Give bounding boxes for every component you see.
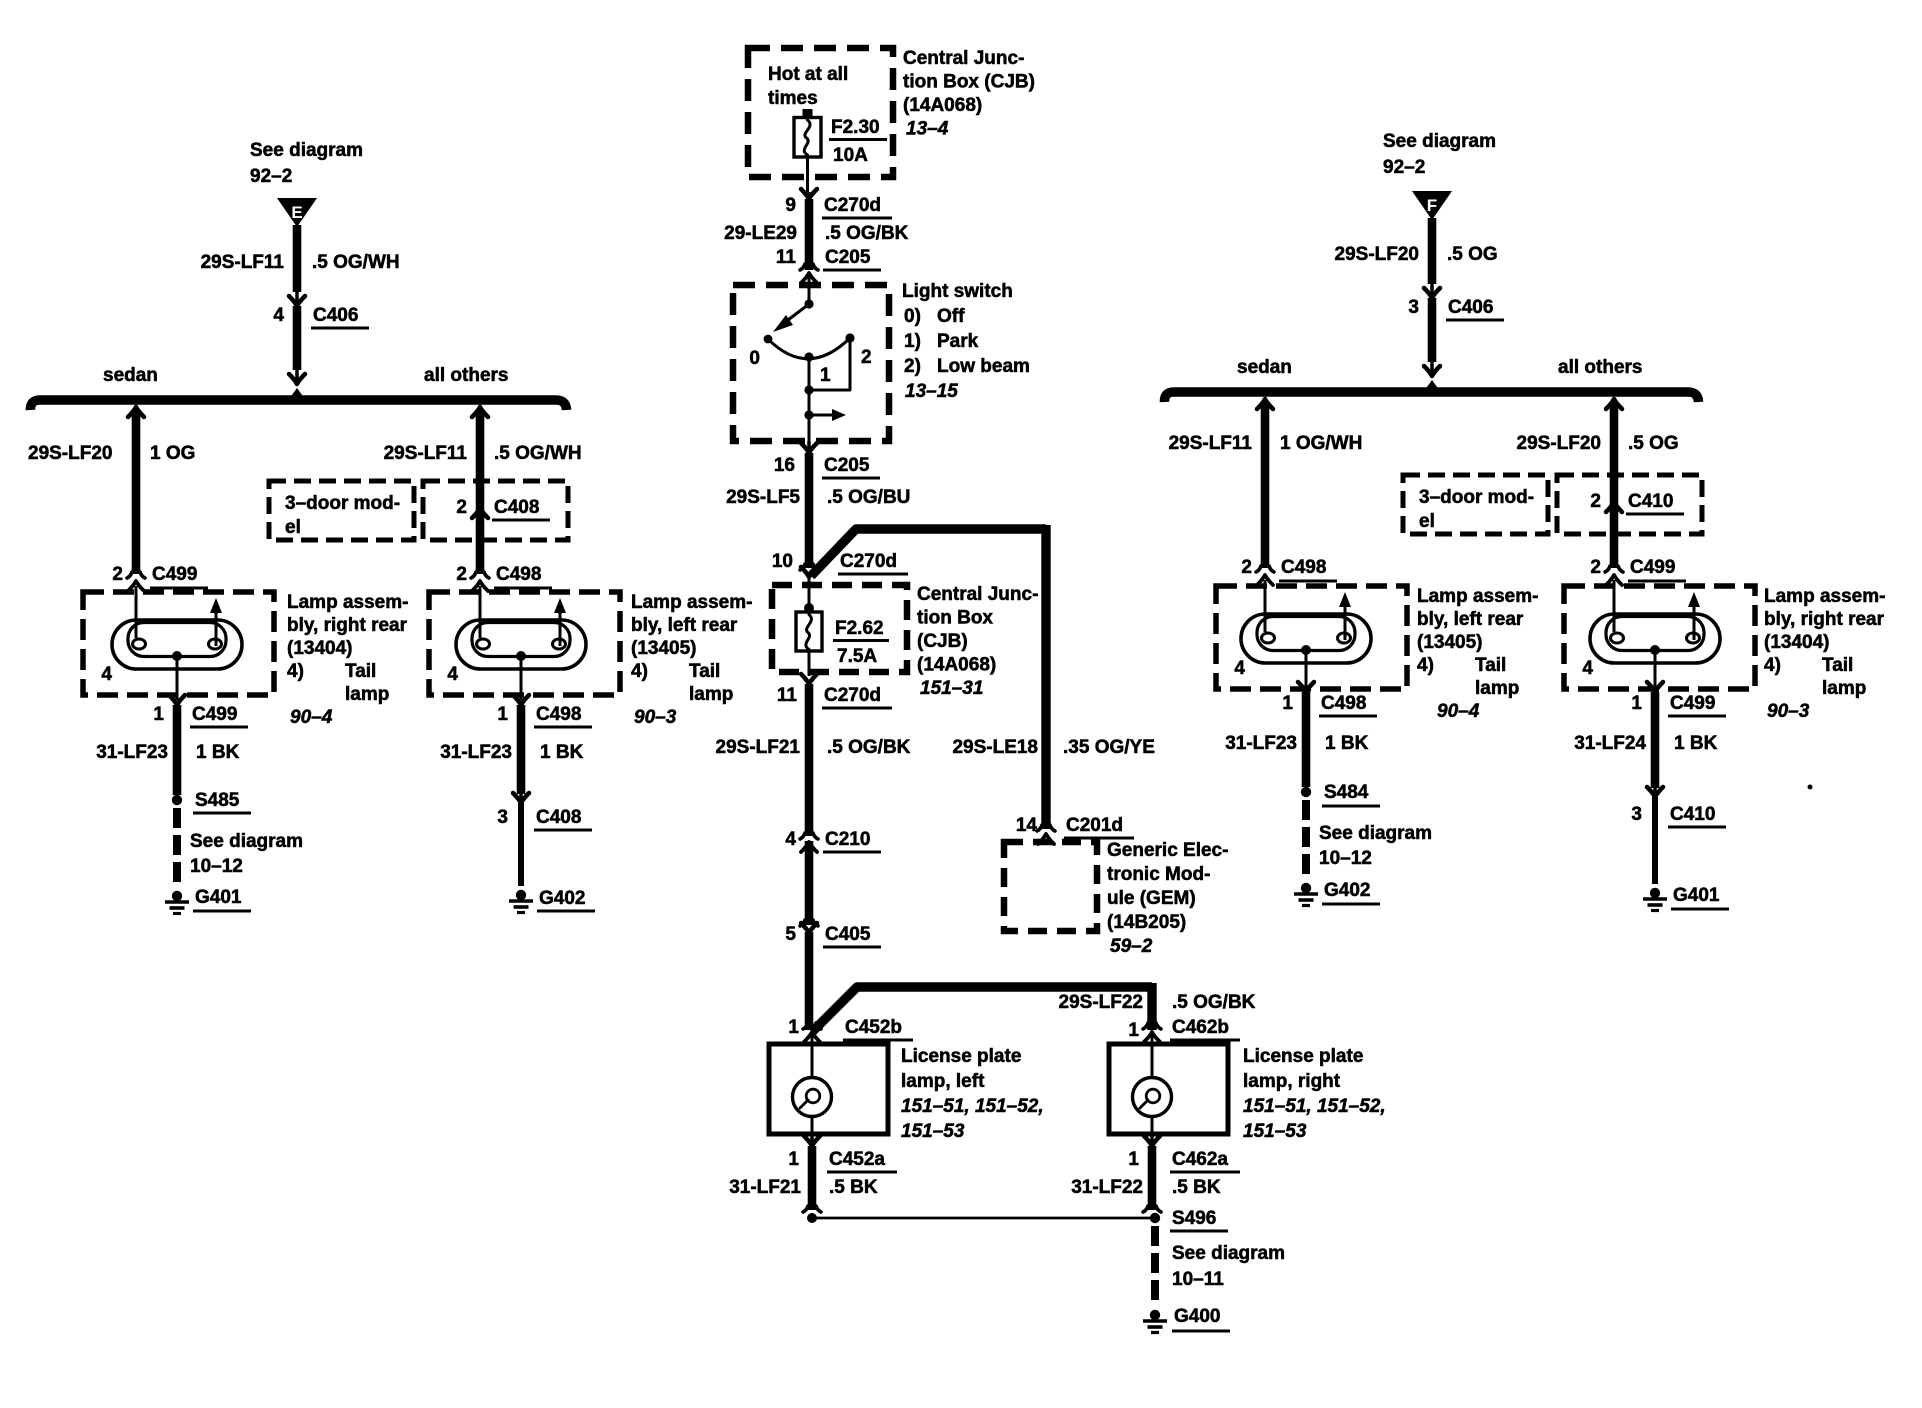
ground G401 (left) bbox=[172, 891, 182, 901]
svg-text:31-LF21: 31-LF21 bbox=[729, 1177, 801, 1198]
svg-text:F2.30: F2.30 bbox=[831, 117, 880, 138]
svg-text:1: 1 bbox=[1128, 1149, 1139, 1170]
triangle connector E from diagram 92-2 bbox=[277, 198, 317, 227]
svg-text:G402: G402 bbox=[539, 888, 585, 909]
svg-text:Off: Off bbox=[937, 306, 965, 327]
svg-text:1: 1 bbox=[788, 1017, 799, 1038]
svg-text:lamp: lamp bbox=[345, 684, 389, 705]
svg-text:all others: all others bbox=[1558, 357, 1642, 378]
connector C499 pin 2 into right-rear lamp (right) bbox=[1605, 566, 1623, 572]
svg-text:License plate: License plate bbox=[901, 1046, 1021, 1067]
svg-text:Lamp assem-: Lamp assem- bbox=[631, 592, 752, 613]
svg-text:31-LF23: 31-LF23 bbox=[440, 742, 512, 763]
svg-text:92–2: 92–2 bbox=[1383, 157, 1425, 178]
svg-text:Light switch: Light switch bbox=[902, 281, 1013, 302]
svg-text:4: 4 bbox=[1582, 658, 1593, 679]
all-others drop wire 29S-LF11 .5 OG/WH (left) bbox=[472, 407, 488, 417]
connector C205 pin 16 below switch bbox=[807, 441, 811, 451]
right bus wire sedan / all others bbox=[1164, 392, 1698, 402]
connector C406 pin 3 (right) bbox=[1430, 284, 1434, 296]
svg-text:2: 2 bbox=[112, 564, 123, 585]
svg-text:(13404): (13404) bbox=[1764, 632, 1830, 653]
svg-text:90–3: 90–3 bbox=[1767, 701, 1810, 722]
feed tap with right arrow bbox=[804, 410, 813, 419]
svg-text:4: 4 bbox=[447, 664, 458, 685]
wire 31-LF22 .5 BK bbox=[1148, 1146, 1157, 1210]
switch position terminal 1 bbox=[804, 352, 813, 361]
svg-text:31-LF23: 31-LF23 bbox=[96, 742, 168, 763]
connector C210 pin 4 (mated pair) bbox=[800, 833, 818, 839]
svg-text:1 BK: 1 BK bbox=[1325, 733, 1369, 754]
wire C406 to sedan/all-others bus (left) bbox=[293, 306, 302, 370]
svg-text:31-LF23: 31-LF23 bbox=[1225, 733, 1297, 754]
svg-text:29S-LF11: 29S-LF11 bbox=[201, 252, 285, 273]
svg-text:C499: C499 bbox=[1670, 693, 1715, 714]
svg-text:.5 OG/WH: .5 OG/WH bbox=[312, 252, 400, 273]
svg-text:Tail: Tail bbox=[1822, 655, 1853, 676]
svg-text:S496: S496 bbox=[1172, 1208, 1216, 1229]
svg-text:tion Box (CJB): tion Box (CJB) bbox=[903, 72, 1035, 93]
svg-text:C452b: C452b bbox=[845, 1017, 902, 1038]
svg-text:G401: G401 bbox=[195, 887, 242, 908]
svg-text:C270d: C270d bbox=[840, 551, 897, 572]
svg-text:sedan: sedan bbox=[1237, 357, 1292, 378]
svg-text:1 BK: 1 BK bbox=[1674, 733, 1718, 754]
svg-text:C201d: C201d bbox=[1066, 815, 1123, 836]
svg-text:14: 14 bbox=[1016, 815, 1038, 836]
splice node left license lamp ground bbox=[807, 1213, 817, 1223]
svg-text:90–3: 90–3 bbox=[634, 707, 677, 728]
dashed wire to ground G400, see diagram 10-11 bbox=[1151, 1226, 1159, 1302]
svg-text:S485: S485 bbox=[195, 790, 240, 811]
wire 31-LF21 .5 BK bbox=[808, 1146, 817, 1210]
svg-text:4: 4 bbox=[101, 664, 112, 685]
wire C405 down to license lamp branch bbox=[805, 932, 814, 1030]
svg-text:Central Junc-: Central Junc- bbox=[903, 48, 1024, 69]
svg-text:C410: C410 bbox=[1628, 491, 1673, 512]
svg-text:.5 OG: .5 OG bbox=[1447, 244, 1498, 265]
svg-text:1 BK: 1 BK bbox=[196, 742, 240, 763]
svg-text:29S-LF20: 29S-LF20 bbox=[28, 443, 112, 464]
svg-text:Hot at all: Hot at all bbox=[768, 64, 848, 85]
central junction box CJB (fuse F2.30) dashed enclosure bbox=[748, 48, 893, 177]
svg-text:C405: C405 bbox=[825, 924, 871, 945]
svg-text:7.5A: 7.5A bbox=[837, 646, 877, 667]
svg-text:tronic Mod-: tronic Mod- bbox=[1107, 864, 1210, 885]
svg-text:See diagram: See diagram bbox=[1172, 1243, 1285, 1264]
svg-text:Tail: Tail bbox=[1475, 655, 1506, 676]
generic electronic module GEM dashed enclosure bbox=[1004, 842, 1097, 931]
svg-text:.35 OG/YE: .35 OG/YE bbox=[1063, 737, 1155, 758]
svg-text:lamp, left: lamp, left bbox=[901, 1071, 985, 1092]
svg-text:(14A068): (14A068) bbox=[903, 95, 982, 116]
svg-text:1: 1 bbox=[1282, 693, 1293, 714]
connector C201d pin 14 into GEM bbox=[1037, 825, 1055, 831]
switch pivot node bbox=[804, 299, 813, 308]
svg-text:.5 OG: .5 OG bbox=[1628, 433, 1679, 454]
connector C452b pin 1 into left license lamp bbox=[803, 1023, 821, 1029]
svg-text:1: 1 bbox=[153, 704, 164, 725]
ground equalizer wire to S496 bbox=[812, 1217, 1155, 1220]
svg-text:Lamp assem-: Lamp assem- bbox=[1764, 586, 1885, 607]
svg-text:(13405): (13405) bbox=[1417, 632, 1483, 653]
svg-text:59–2: 59–2 bbox=[1110, 936, 1153, 957]
svg-text:31-LF24: 31-LF24 bbox=[1574, 733, 1646, 754]
svg-text:(14A068): (14A068) bbox=[917, 655, 996, 676]
svg-text:1: 1 bbox=[1128, 1020, 1139, 1041]
license plate lamp right (bulb in solid box) bbox=[1109, 1044, 1228, 1134]
svg-text:el: el bbox=[1419, 511, 1435, 532]
svg-text:3: 3 bbox=[1408, 297, 1419, 318]
svg-text:90–4: 90–4 bbox=[1437, 701, 1480, 722]
wire 31-LF23 1 BK (left lamp) bbox=[173, 705, 182, 795]
svg-text:ule (GEM): ule (GEM) bbox=[1107, 888, 1196, 909]
wire 29S-LF11 .5 OG/WH from E bbox=[293, 225, 302, 292]
lamp assembly right rear 13404 (tail lamp, left diagram) bbox=[83, 592, 274, 695]
connector C408 pin 2 chevron and labels bbox=[472, 508, 488, 518]
svg-text:C270d: C270d bbox=[824, 195, 881, 216]
svg-text:License plate: License plate bbox=[1243, 1046, 1363, 1067]
connector C499 pin 2 into right-rear lamp bbox=[127, 572, 145, 578]
svg-text:C499: C499 bbox=[1630, 557, 1675, 578]
svg-text:.5 OG/BU: .5 OG/BU bbox=[827, 487, 910, 508]
splice S484 bbox=[1301, 787, 1311, 797]
connector C408 pin 3 bbox=[519, 794, 523, 801]
svg-text:(CJB): (CJB) bbox=[917, 631, 968, 652]
connector C410 pin 2 chevron and labels bbox=[1606, 502, 1622, 512]
svg-text:Low beam: Low beam bbox=[937, 356, 1030, 377]
wire to ground G402 bbox=[518, 803, 524, 886]
svg-text:bly, left rear: bly, left rear bbox=[631, 615, 738, 636]
wire C406 to bus (right) bbox=[1428, 298, 1437, 362]
svg-text:4): 4) bbox=[1764, 655, 1781, 676]
splice S485 bbox=[172, 795, 182, 805]
connector C410 pin 2 dashed box on all-others drop (right) bbox=[1557, 475, 1702, 534]
svg-text:(13404): (13404) bbox=[287, 638, 353, 659]
svg-text:C410: C410 bbox=[1670, 804, 1715, 825]
connector C498 pin 1 below lamp (right) bbox=[1298, 682, 1314, 692]
svg-text:92–2: 92–2 bbox=[250, 166, 292, 187]
dashed wire to ground, see diagram 10-12 (left) bbox=[173, 808, 181, 886]
switch arc 0-1-2 bbox=[768, 338, 850, 359]
svg-text:C499: C499 bbox=[152, 564, 197, 585]
connector C408 pin 2 dashed box on all-others drop (left) bbox=[423, 481, 568, 540]
connector C405 pin 5 bbox=[800, 920, 818, 926]
svg-text:4: 4 bbox=[785, 829, 796, 850]
svg-text:1: 1 bbox=[788, 1149, 799, 1170]
splice S496 bbox=[1150, 1213, 1160, 1223]
svg-text:29S-LF5: 29S-LF5 bbox=[726, 487, 800, 508]
svg-text:4): 4) bbox=[287, 661, 304, 682]
svg-text:F2.62: F2.62 bbox=[835, 618, 884, 639]
wire 29S-LF21 .5 OG/BK bbox=[805, 684, 814, 836]
wire: fuse to connector C270d bbox=[806, 157, 809, 192]
svg-text:1 OG/WH: 1 OG/WH bbox=[1280, 433, 1362, 454]
wire 31-LF23 1 BK (right sedan lamp) bbox=[1302, 692, 1311, 787]
junction notch on left bus bbox=[289, 388, 305, 399]
left bus wire sedan / all others bbox=[30, 400, 566, 410]
svg-text:times: times bbox=[768, 88, 818, 109]
fuse F2.30 10A bbox=[803, 109, 813, 118]
svg-text:29S-LF11: 29S-LF11 bbox=[1169, 433, 1253, 454]
svg-text:2: 2 bbox=[1590, 491, 1601, 512]
svg-text:lamp: lamp bbox=[689, 684, 733, 705]
svg-text:1 BK: 1 BK bbox=[540, 742, 584, 763]
wire 29-LE29 .5 OG/BK bbox=[805, 199, 814, 270]
wire into CJB fuse F2.62 bbox=[808, 577, 811, 608]
connector C270d pin 9 bbox=[807, 192, 811, 197]
svg-text:1): 1) bbox=[904, 331, 921, 352]
svg-text:4): 4) bbox=[631, 661, 648, 682]
svg-text:151–53: 151–53 bbox=[1243, 1121, 1307, 1142]
stray print dot bbox=[1808, 785, 1813, 790]
svg-text:C408: C408 bbox=[536, 807, 581, 828]
svg-text:S484: S484 bbox=[1324, 782, 1369, 803]
svg-text:1 OG: 1 OG bbox=[150, 443, 195, 464]
svg-text:29S-LF22: 29S-LF22 bbox=[1059, 992, 1143, 1013]
svg-text:C498: C498 bbox=[1281, 557, 1326, 578]
ground G402 (left) bbox=[516, 890, 526, 900]
svg-text:C498: C498 bbox=[496, 564, 541, 585]
svg-text:16: 16 bbox=[774, 455, 795, 476]
svg-text:C452a: C452a bbox=[829, 1149, 885, 1170]
wire branch to GEM: diagonal + horizontal + vertical bbox=[811, 529, 1046, 576]
svg-text:See diagram: See diagram bbox=[1383, 131, 1496, 152]
svg-text:151–53: 151–53 bbox=[901, 1121, 965, 1142]
svg-text:C205: C205 bbox=[825, 247, 871, 268]
svg-text:.5 OG/WH: .5 OG/WH bbox=[494, 443, 582, 464]
svg-text:29S-LF20: 29S-LF20 bbox=[1335, 244, 1419, 265]
svg-text:5: 5 bbox=[785, 924, 796, 945]
wire 29S-LF20 .5 OG from F bbox=[1428, 218, 1437, 284]
svg-text:.5 BK: .5 BK bbox=[1172, 1177, 1221, 1198]
svg-text:C210: C210 bbox=[825, 829, 870, 850]
svg-text:C408: C408 bbox=[494, 497, 539, 518]
svg-text:31-LF22: 31-LF22 bbox=[1071, 1177, 1143, 1198]
svg-text:C498: C498 bbox=[1321, 693, 1366, 714]
svg-text:151–31: 151–31 bbox=[920, 678, 983, 699]
switch pole wire bbox=[808, 357, 811, 441]
svg-text:lamp: lamp bbox=[1475, 678, 1519, 699]
svg-text:29S-LF20: 29S-LF20 bbox=[1517, 433, 1601, 454]
svg-text:2: 2 bbox=[861, 347, 872, 368]
connector C462b pin 1 into right license lamp bbox=[1143, 1023, 1161, 1029]
connector C462a pin 1 below right license lamp bbox=[1150, 1134, 1154, 1144]
svg-text:C406: C406 bbox=[313, 305, 358, 326]
connector C270d pin 11 below CJB bbox=[801, 674, 817, 684]
svg-text:151–51, 151–52,: 151–51, 151–52, bbox=[901, 1096, 1044, 1117]
svg-text:1: 1 bbox=[820, 365, 831, 386]
junction node on pole bbox=[804, 385, 813, 394]
svg-text:G401: G401 bbox=[1673, 885, 1720, 906]
svg-text:(14B205): (14B205) bbox=[1107, 912, 1186, 933]
svg-text:el: el bbox=[285, 517, 301, 538]
svg-text:13–15: 13–15 bbox=[905, 381, 958, 402]
svg-text:lamp, right: lamp, right bbox=[1243, 1071, 1341, 1092]
3-door model dashed note box (right) bbox=[1403, 475, 1548, 534]
connector C452a pin 1 below left license lamp bbox=[810, 1134, 814, 1144]
svg-text:10: 10 bbox=[772, 551, 793, 572]
lamp assembly left rear 13405 (tail lamp, left diagram) bbox=[429, 592, 620, 695]
svg-text:9: 9 bbox=[785, 195, 796, 216]
switch wiper arm with arrowhead toward position 0 bbox=[788, 304, 809, 320]
wire branch to right license lamp: diagonal + horizontal + vertical bbox=[812, 987, 1152, 1032]
3-door model dashed note box (left) bbox=[269, 481, 414, 540]
svg-text:1: 1 bbox=[1631, 693, 1642, 714]
svg-text:2: 2 bbox=[1590, 557, 1601, 578]
svg-text:2: 2 bbox=[456, 497, 467, 518]
fuse F2.62 7.5A bbox=[804, 603, 814, 613]
svg-text:2: 2 bbox=[1241, 557, 1252, 578]
svg-text:bly, left rear: bly, left rear bbox=[1417, 609, 1524, 630]
svg-text:See diagram: See diagram bbox=[190, 831, 303, 852]
svg-text:Lamp assem-: Lamp assem- bbox=[287, 592, 408, 613]
svg-text:0): 0) bbox=[904, 306, 921, 327]
svg-text:(13405): (13405) bbox=[631, 638, 697, 659]
svg-text:3–door mod-: 3–door mod- bbox=[1419, 487, 1534, 508]
wire into light switch bbox=[808, 273, 811, 304]
sedan drop wire 29S-LF11 1 OG/WH (right) bbox=[1257, 399, 1273, 409]
svg-text:29-LE29: 29-LE29 bbox=[724, 223, 797, 244]
wire 31-LF23 1 BK (second lamp) bbox=[517, 705, 526, 794]
all-others drop wire 29S-LF20 .5 OG (right) bbox=[1606, 399, 1622, 409]
svg-text:10A: 10A bbox=[833, 145, 868, 166]
svg-text:C406: C406 bbox=[1448, 297, 1493, 318]
lamp assembly left rear 13405 (tail lamp, right diagram) bbox=[1216, 586, 1407, 689]
svg-text:4: 4 bbox=[1234, 658, 1245, 679]
junction notch on right bus bbox=[1424, 380, 1440, 391]
svg-text:3–door mod-: 3–door mod- bbox=[285, 493, 400, 514]
svg-text:29S-LF11: 29S-LF11 bbox=[384, 443, 468, 464]
switch position terminal 2 bbox=[845, 333, 854, 342]
svg-text:4: 4 bbox=[273, 305, 284, 326]
light switch dashed enclosure bbox=[733, 285, 889, 441]
sedan drop wire 29S-LF20 1 OG (left) bbox=[128, 407, 144, 417]
ground G402 (right) bbox=[1301, 883, 1311, 893]
connector C498 pin 1 below lamp bbox=[513, 695, 529, 705]
svg-text:sedan: sedan bbox=[103, 365, 158, 386]
ground G401 (right) bbox=[1650, 888, 1660, 898]
svg-text:3: 3 bbox=[1631, 804, 1642, 825]
svg-text:11: 11 bbox=[777, 685, 798, 706]
svg-text:F: F bbox=[1427, 196, 1437, 215]
svg-text:10–12: 10–12 bbox=[190, 856, 243, 877]
svg-text:151–51, 151–52,: 151–51, 151–52, bbox=[1243, 1096, 1386, 1117]
ground G400 bbox=[1150, 1310, 1160, 1320]
wire from terminal 2 down and left to main pole bbox=[809, 338, 850, 390]
svg-text:3: 3 bbox=[497, 807, 508, 828]
wire C210 to C405 bbox=[805, 841, 814, 925]
wire 31-LF24 1 BK bbox=[1651, 692, 1660, 788]
svg-text:11: 11 bbox=[776, 247, 797, 268]
svg-text:2: 2 bbox=[456, 564, 467, 585]
svg-text:tion Box: tion Box bbox=[917, 608, 993, 629]
svg-text:E: E bbox=[291, 203, 302, 222]
svg-text:.5 OG/BK: .5 OG/BK bbox=[1172, 992, 1256, 1013]
svg-text:29S-LF21: 29S-LF21 bbox=[716, 737, 801, 758]
svg-text:Park: Park bbox=[937, 331, 979, 352]
svg-text:C270d: C270d bbox=[824, 685, 881, 706]
svg-text:bly, right rear: bly, right rear bbox=[1764, 609, 1885, 630]
svg-text:.5 BK: .5 BK bbox=[829, 1177, 878, 1198]
svg-text:.5 OG/BK: .5 OG/BK bbox=[825, 223, 909, 244]
svg-text:bly, right rear: bly, right rear bbox=[287, 615, 408, 636]
wire below fuse bbox=[808, 651, 811, 676]
wire 29S-LF5 .5 OG/BU bbox=[805, 453, 814, 568]
connector C498 pin 2 into left-rear lamp (right) bbox=[1256, 566, 1274, 572]
svg-text:1: 1 bbox=[497, 704, 508, 725]
switch position terminal 0 bbox=[764, 335, 773, 344]
svg-text:See diagram: See diagram bbox=[1319, 823, 1432, 844]
connector C498 pin 2 into left-rear lamp bbox=[471, 572, 489, 578]
svg-text:Central Junc-: Central Junc- bbox=[917, 584, 1038, 605]
svg-text:Tail: Tail bbox=[345, 661, 376, 682]
svg-text:lamp: lamp bbox=[1822, 678, 1866, 699]
triangle connector F from diagram 92-2 bbox=[1412, 191, 1452, 220]
svg-text:C499: C499 bbox=[192, 704, 237, 725]
dashed wire to ground, see diagram 10-12 (right) bbox=[1302, 800, 1310, 878]
wire to ground G401 (right) bbox=[1652, 797, 1658, 884]
svg-text:0: 0 bbox=[749, 348, 760, 369]
svg-text:4): 4) bbox=[1417, 655, 1434, 676]
connector C205 pin 11 (mated pair) bbox=[800, 264, 818, 270]
license plate lamp left (bulb in solid box) bbox=[769, 1044, 888, 1134]
svg-text:C462a: C462a bbox=[1172, 1149, 1228, 1170]
connector C499 pin 1 below lamp bbox=[169, 695, 185, 705]
svg-text:10–11: 10–11 bbox=[1172, 1269, 1224, 1290]
svg-text:C462b: C462b bbox=[1172, 1017, 1229, 1038]
svg-text:Lamp assem-: Lamp assem- bbox=[1417, 586, 1538, 607]
svg-text:10–12: 10–12 bbox=[1319, 848, 1372, 869]
connector C406 pin 4 (left) bbox=[295, 292, 299, 304]
svg-text:29S-LE18: 29S-LE18 bbox=[952, 737, 1038, 758]
central junction box CJB (fuse F2.62) dashed enclosure bbox=[772, 585, 907, 672]
svg-text:13–4: 13–4 bbox=[906, 119, 949, 140]
svg-text:G402: G402 bbox=[1324, 880, 1370, 901]
connector C410 pin 3 bbox=[1653, 788, 1657, 795]
lamp assembly right rear 13404 (tail lamp, right diagram) bbox=[1564, 586, 1755, 689]
svg-text:2): 2) bbox=[904, 356, 921, 377]
connector C499 pin 1 below lamp (right) bbox=[1647, 682, 1663, 692]
svg-text:.5 OG/BK: .5 OG/BK bbox=[827, 737, 911, 758]
svg-text:C205: C205 bbox=[824, 455, 870, 476]
connector C270d pin 10 bbox=[800, 564, 818, 570]
svg-text:C498: C498 bbox=[536, 704, 581, 725]
svg-text:Generic Elec-: Generic Elec- bbox=[1107, 840, 1228, 861]
svg-text:Tail: Tail bbox=[689, 661, 720, 682]
svg-text:all others: all others bbox=[424, 365, 508, 386]
svg-text:G400: G400 bbox=[1174, 1306, 1220, 1327]
svg-text:See diagram: See diagram bbox=[250, 140, 363, 161]
svg-text:90–4: 90–4 bbox=[290, 707, 333, 728]
